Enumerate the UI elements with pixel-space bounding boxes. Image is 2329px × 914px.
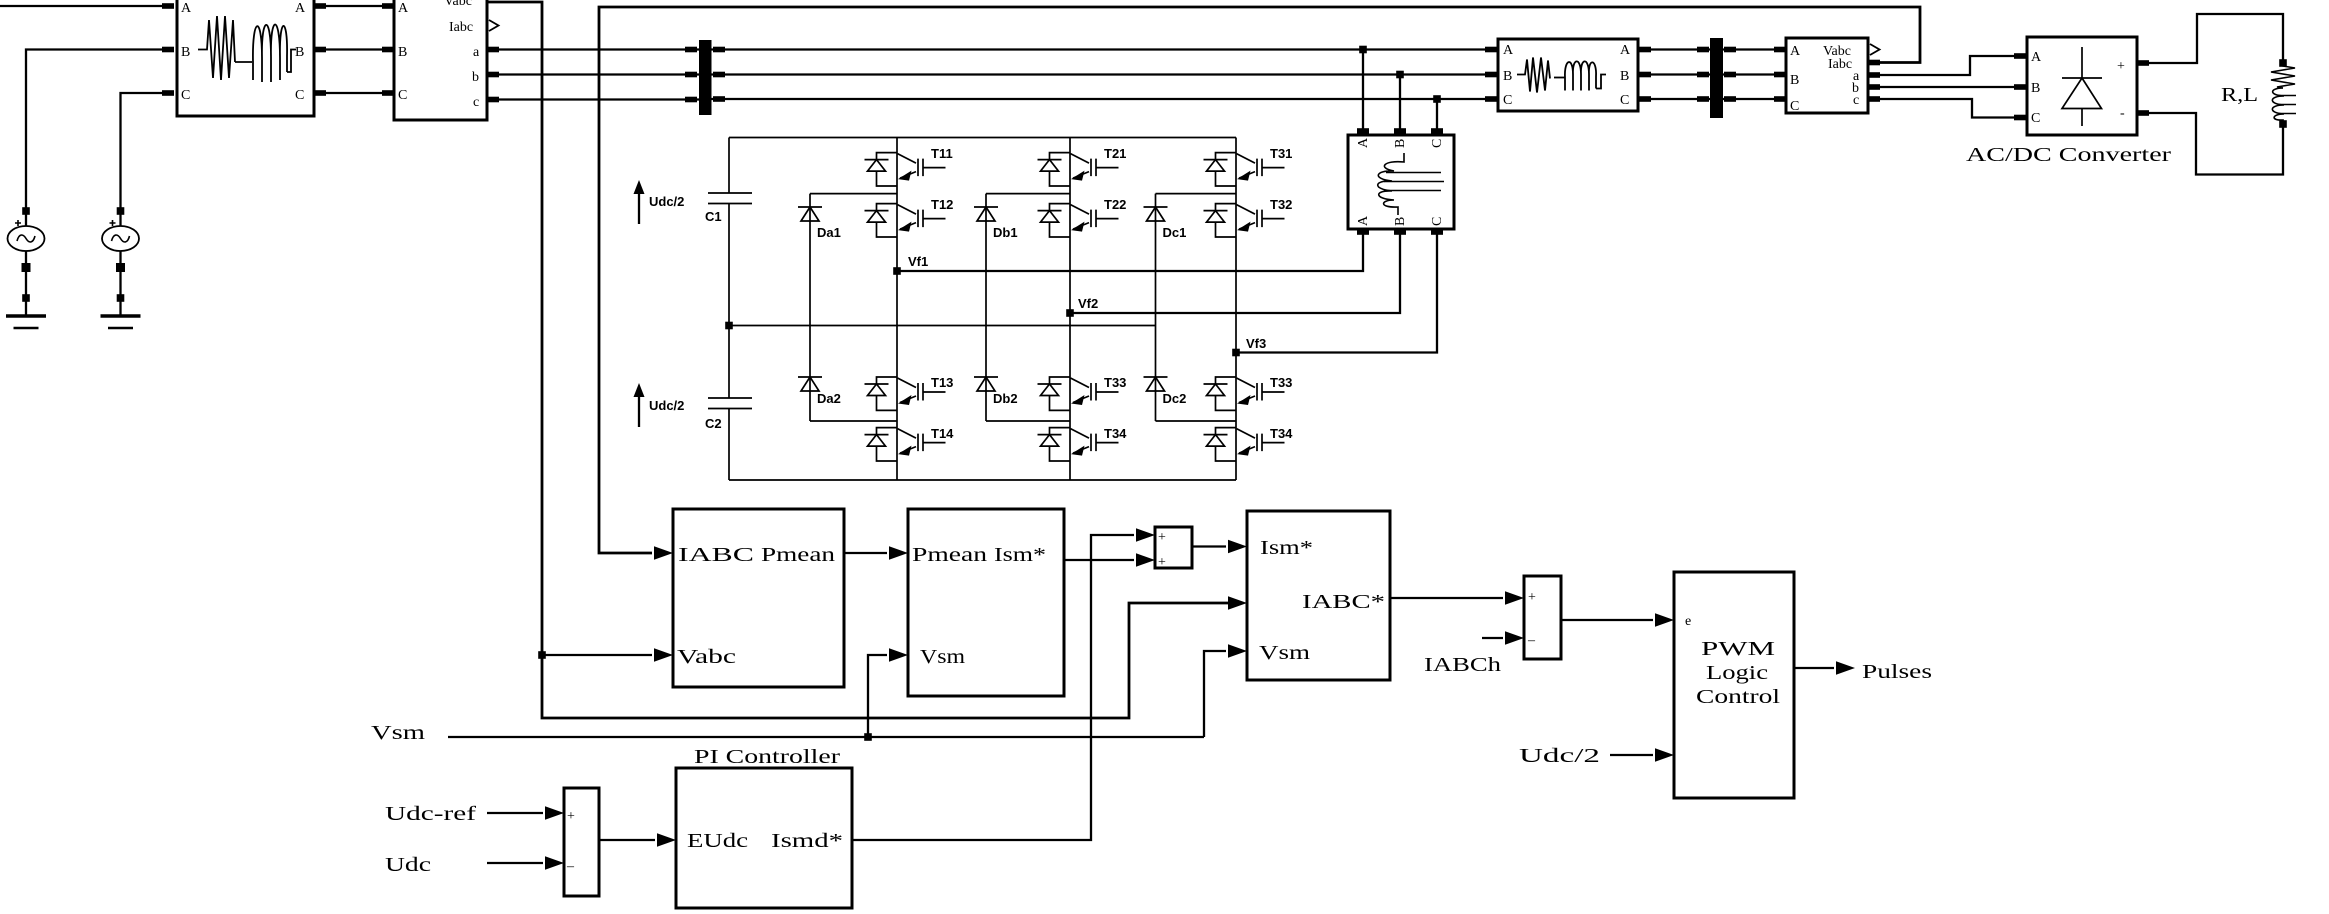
AC/DC converter block <box>2027 37 2137 135</box>
svg-text:C: C <box>1430 217 1445 226</box>
svg-text:C: C <box>295 88 304 103</box>
wire source B input <box>26 50 166 213</box>
clamp branch wires Da1/Da2 <box>810 194 897 421</box>
svg-text:B: B <box>181 45 190 60</box>
svg-text:Vsm: Vsm <box>371 722 426 744</box>
svg-text:C: C <box>1790 99 1799 114</box>
node Vf1 <box>893 254 928 275</box>
svg-text:T11: T11 <box>931 146 953 161</box>
svg-text:Ism*: Ism* <box>1260 537 1313 559</box>
svg-text:Vabc: Vabc <box>444 0 472 9</box>
svg-text:T14: T14 <box>931 426 954 441</box>
wire drop a to filter <box>1362 50 1364 133</box>
clamp branch wires Db1/Db2 <box>986 194 1070 421</box>
wire Udc-ref input <box>487 812 543 814</box>
IGBT T33 <box>1038 375 1127 410</box>
IGBT T11 <box>865 146 953 186</box>
clamp diode Dc2 <box>1144 377 1187 406</box>
ground 1 <box>6 316 46 328</box>
svg-text:Udc-ref: Udc-ref <box>385 803 476 825</box>
svg-text:A: A <box>1620 43 1631 58</box>
wire EUdc input <box>599 839 655 841</box>
svg-text:Udc/2: Udc/2 <box>649 194 684 209</box>
capacitor C2 <box>705 398 752 431</box>
node Vabc branch junction <box>538 651 546 659</box>
node Vsm junction <box>864 733 872 741</box>
block current reference IABC* <box>1247 511 1390 680</box>
svg-text:IABCh: IABCh <box>1424 654 1501 676</box>
wire source A input <box>0 5 166 7</box>
wire c busbar2 to meas2 <box>1723 98 1786 100</box>
wire Vsm into IABC* block <box>1204 651 1226 737</box>
svg-text:B: B <box>1503 69 1512 84</box>
node phase c junction <box>1433 95 1441 103</box>
svg-text:AC/DC Converter: AC/DC Converter <box>1966 144 2171 166</box>
wire T1-B to meas1-B <box>314 48 394 50</box>
wire + to load <box>2137 14 2283 63</box>
three-phase V-I measurement block 2 <box>1786 38 1868 114</box>
wire error e to PWM <box>1561 619 1653 621</box>
block Pmean Ism* <box>908 509 1064 696</box>
IGBT T32 <box>1204 197 1293 237</box>
wire b T2 to busbar2 <box>1638 73 1710 75</box>
svg-text:Vabc: Vabc <box>677 646 736 668</box>
svg-text:+: + <box>1158 530 1166 545</box>
wire IABCh input <box>1482 637 1503 639</box>
svg-text:Udc/2: Udc/2 <box>649 398 684 413</box>
busbar 1 <box>699 40 712 115</box>
svg-text:Db2: Db2 <box>993 391 1018 406</box>
wire drop b to filter <box>1399 75 1401 133</box>
wire a busbar2 to meas2 <box>1723 48 1786 50</box>
subtractor block 2 <box>1524 576 1561 659</box>
wire phase a meas1 to busbar <box>487 48 699 50</box>
wire b busbar2 to meas2 <box>1723 73 1786 75</box>
wire IABC* to subtractor <box>1390 597 1503 599</box>
svg-text:IABC*: IABC* <box>1302 591 1385 613</box>
svg-text:T21: T21 <box>1104 146 1126 161</box>
wire T1-C to meas1-C <box>314 92 394 94</box>
svg-text:C: C <box>1620 93 1629 108</box>
svg-text:EUdc: EUdc <box>687 830 748 852</box>
IGBT T34 <box>1204 426 1294 461</box>
svg-text:b: b <box>472 70 479 85</box>
adder block 1 <box>1155 527 1192 570</box>
node phase b junction <box>1396 71 1404 79</box>
svg-text:Da1: Da1 <box>817 225 841 240</box>
clamp diode Da1 <box>798 207 841 240</box>
svg-text:Da2: Da2 <box>817 391 841 406</box>
svg-text:PWM: PWM <box>1701 638 1775 660</box>
svg-text:T33: T33 <box>1270 375 1292 390</box>
svg-text:c: c <box>1853 93 1859 108</box>
block IABC Pmean <box>673 509 844 687</box>
wire Vsm into Pmean Ism* <box>868 655 887 737</box>
svg-text:T34: T34 <box>1270 426 1293 441</box>
svg-text:Vf3: Vf3 <box>1246 336 1266 351</box>
svg-text:A: A <box>2031 50 2042 65</box>
svg-text:A: A <box>1356 137 1371 148</box>
open arrow Iabc unused port meas1 <box>489 20 499 31</box>
svg-text:Pulses: Pulses <box>1862 661 1932 683</box>
node phase a junction <box>1359 46 1367 54</box>
wire c meas2 to converter <box>1868 99 2027 118</box>
wire Vabc branch into IABC Pmean <box>542 654 652 656</box>
clamp diode Db2 <box>974 377 1018 406</box>
svg-text:B: B <box>1393 217 1408 226</box>
Udc/2 arrow lower <box>634 383 685 427</box>
wire Ismd* from PI up to adder <box>852 535 1134 840</box>
arrow into IABC* block input 2 <box>1228 596 1247 610</box>
svg-text:Dc1: Dc1 <box>1163 225 1187 240</box>
wire phase c busbar to transformer2 <box>712 98 1499 100</box>
svg-text:C: C <box>2031 111 2040 126</box>
svg-text:IABC: IABC <box>678 544 754 566</box>
svg-text:C: C <box>1503 93 1512 108</box>
svg-text:PI Controller: PI Controller <box>694 746 840 768</box>
svg-text:B: B <box>1790 73 1799 88</box>
svg-text:Dc2: Dc2 <box>1163 391 1187 406</box>
wire a meas2 to converter <box>1868 56 2027 75</box>
svg-text:C: C <box>181 88 190 103</box>
svg-text:-: - <box>2120 106 2125 121</box>
wire a T2 to busbar2 <box>1638 48 1710 50</box>
svg-text:–: – <box>1527 633 1536 648</box>
transformer T2 <box>1498 39 1638 111</box>
wire phase a busbar to transformer2 <box>712 48 1499 50</box>
svg-text:B: B <box>398 45 407 60</box>
IGBT T22 <box>1038 197 1127 237</box>
wire Pmean link <box>844 552 887 554</box>
inverter leg at x=1236 <box>1235 138 1237 481</box>
series R,L branch <box>2271 63 2296 124</box>
svg-text:+: + <box>567 809 575 824</box>
IGBT T33 <box>1204 375 1293 410</box>
IGBT T12 <box>865 197 954 237</box>
svg-text:Vsm: Vsm <box>1259 642 1311 664</box>
svg-text:T22: T22 <box>1104 197 1126 212</box>
three-phase V-I measurement block 1 <box>394 0 487 120</box>
svg-text:C: C <box>398 88 407 103</box>
svg-text:T12: T12 <box>931 197 953 212</box>
clamp diode Dc1 <box>1144 207 1187 240</box>
svg-text:A: A <box>1356 215 1371 226</box>
svg-text:Vf1: Vf1 <box>908 254 928 269</box>
wire Udc/2 input <box>1610 754 1653 756</box>
node load bottom <box>2279 120 2287 128</box>
wire adder1 to Ism* input <box>1192 545 1226 547</box>
wire Pulses output <box>1794 667 1834 669</box>
DC bus top rail <box>729 137 1236 139</box>
svg-text:–: – <box>566 859 575 874</box>
three-phase inductor filter block <box>1348 135 1454 229</box>
clamp diode Db1 <box>974 207 1018 240</box>
capacitor C1 <box>705 193 752 224</box>
svg-text:A: A <box>1503 43 1514 58</box>
wire Vf3 to filter C <box>1236 232 1437 353</box>
block PWM Logic Control <box>1674 572 1794 798</box>
svg-text:Iabc: Iabc <box>449 20 473 35</box>
svg-text:+: + <box>1528 590 1536 605</box>
clamp diode Da2 <box>798 377 841 406</box>
svg-text:B: B <box>2031 81 2040 96</box>
svg-text:Control: Control <box>1696 686 1781 708</box>
svg-text:Ismd*: Ismd* <box>771 830 843 852</box>
svg-text:Vf2: Vf2 <box>1078 296 1098 311</box>
wire Vf2 to filter B <box>1070 232 1400 313</box>
svg-text:c: c <box>473 95 479 110</box>
svg-text:T13: T13 <box>931 375 953 390</box>
svg-text:B: B <box>295 45 304 60</box>
wire source C input <box>121 93 167 212</box>
svg-text:Pmean: Pmean <box>912 544 987 566</box>
svg-text:T31: T31 <box>1270 146 1292 161</box>
inverter leg at x=897 <box>896 138 898 481</box>
svg-text:Db1: Db1 <box>993 225 1018 240</box>
DC bus left rail <box>728 138 730 481</box>
svg-text:T33: T33 <box>1104 375 1126 390</box>
wire b meas2 to converter <box>1868 86 2027 88</box>
Udc/2 arrow upper <box>634 180 685 224</box>
AC voltage source 2 <box>102 207 139 316</box>
wire phase c meas1 to busbar <box>487 98 699 100</box>
wire Vf1 to filter A <box>897 232 1363 271</box>
node Vf3 <box>1232 336 1266 356</box>
svg-text:B: B <box>1620 69 1629 84</box>
svg-text:Udc/2: Udc/2 <box>1519 745 1600 767</box>
svg-text:A: A <box>295 1 306 16</box>
open arrow Vabc unused port meas2 <box>1870 44 1880 55</box>
node load top <box>2279 59 2287 67</box>
ground 2 <box>101 316 141 328</box>
AC voltage source 1 <box>8 207 45 316</box>
svg-text:B: B <box>1393 139 1408 148</box>
svg-text:C: C <box>1430 139 1445 148</box>
svg-text:C2: C2 <box>705 416 722 431</box>
node Vf2 <box>1066 296 1098 317</box>
IGBT T31 <box>1204 146 1293 186</box>
svg-text:Iabc: Iabc <box>1828 57 1852 72</box>
wire c T2 to busbar2 <box>1638 98 1710 100</box>
wire Udc input <box>487 862 543 864</box>
wire phase b busbar to transformer2 <box>712 73 1499 75</box>
inverter leg at x=1070 <box>1069 138 1071 481</box>
wire - to load <box>2137 113 2283 175</box>
svg-text:e: e <box>1685 614 1691 629</box>
wire Ism* to adder <box>1064 559 1134 561</box>
IGBT T21 <box>1038 146 1127 186</box>
svg-text:Logic: Logic <box>1706 662 1768 684</box>
three-phase source block (transformer T1) <box>177 0 314 116</box>
wire Vsm distribution line <box>448 736 1204 738</box>
IGBT T14 <box>865 426 955 461</box>
svg-text:Pmean: Pmean <box>761 544 835 566</box>
svg-text:+: + <box>1158 555 1166 570</box>
wire T1-A to meas1-A <box>314 5 394 7</box>
svg-text:+: + <box>2117 59 2125 74</box>
svg-text:Vsm: Vsm <box>920 646 966 668</box>
wire drop c to filter <box>1436 99 1438 132</box>
svg-text:C1: C1 <box>705 209 722 224</box>
block PI controller EUdc Ismd* <box>676 768 852 908</box>
IGBT T13 <box>865 375 954 410</box>
subtractor block 3 <box>564 788 599 896</box>
svg-text:Udc: Udc <box>385 854 431 876</box>
svg-text:A: A <box>398 1 409 16</box>
wire Vabc from meas1 down to controls <box>487 2 1236 718</box>
clamp branch wires Dc1/Dc2 <box>1156 194 1237 421</box>
wire phase b meas1 to busbar <box>487 73 699 75</box>
svg-text:A: A <box>181 1 192 16</box>
svg-text:T34: T34 <box>1104 426 1127 441</box>
IGBT T34 <box>1038 426 1128 461</box>
svg-text:a: a <box>473 45 480 60</box>
svg-text:T32: T32 <box>1270 197 1292 212</box>
neutral midpoint line <box>729 325 1156 327</box>
DC bus bottom rail <box>729 479 1236 481</box>
svg-text:Ism*: Ism* <box>994 544 1046 566</box>
svg-text:A: A <box>1790 44 1801 59</box>
wire Iabc from meas2 along top to IABC input <box>599 7 1920 553</box>
busbar 2 <box>1710 38 1723 118</box>
svg-text:R,L: R,L <box>2221 84 2258 106</box>
